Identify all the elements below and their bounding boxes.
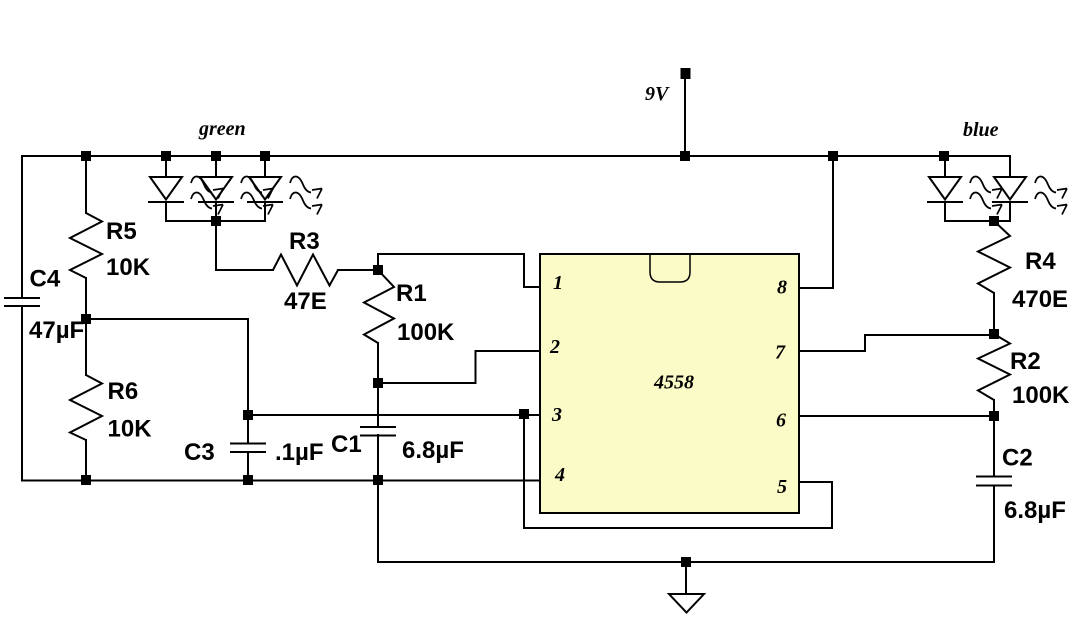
svg-text:R5: R5: [106, 218, 137, 245]
LED D5 emission arrows: [1035, 176, 1067, 214]
junction bottom rail / R6: [81, 475, 91, 485]
svg-text:5: 5: [777, 476, 787, 498]
svg-text:R3: R3: [289, 228, 320, 255]
svg-text:C3: C3: [184, 439, 215, 466]
svg-text:470E: 470E: [1012, 286, 1068, 313]
wire R5 bottom stub: [85, 278, 87, 319]
wire R1 bottom stub: [377, 343, 379, 383]
resistor R4: [978, 221, 1010, 293]
svg-text:R6: R6: [108, 378, 139, 405]
junction top rail / blue LED1: [939, 151, 949, 161]
junction R5/R6/C3 wire: [81, 314, 91, 324]
wire C2 top lead: [993, 416, 995, 476]
LED D4 emission arrows: [970, 176, 1002, 214]
node A: R3/R1/pin1: [373, 265, 383, 275]
svg-text:47µF: 47µF: [29, 317, 84, 344]
resistor R5: [70, 213, 102, 278]
wire node B to pin 2: [378, 351, 540, 383]
resistor R6: [70, 375, 102, 440]
wire node R5/R6 to C3 column: [86, 319, 248, 415]
wire R4 bottom stub: [993, 293, 995, 334]
LED D2 green: [198, 156, 234, 221]
svg-text:.1µF: .1µF: [275, 439, 324, 466]
wire R6 top stub: [85, 319, 87, 375]
junction green LED bus: [211, 216, 221, 226]
junction ground rail / ground: [681, 557, 691, 567]
9V supply terminal: [681, 68, 691, 79]
wire pin 7 step: [799, 335, 994, 351]
svg-text:6: 6: [776, 410, 786, 432]
wire green LED bus to R3: [216, 221, 273, 270]
capacitor C3: [230, 444, 266, 453]
wire left rail lower (C4 to bottom rail): [21, 307, 23, 481]
LED D1 green: [148, 156, 184, 221]
capacitor C4: [4, 298, 40, 306]
svg-text:6.8µF: 6.8µF: [402, 437, 464, 464]
resistor R1: [364, 270, 394, 343]
resistor R2: [978, 334, 1010, 400]
wire node A to pin 1: [378, 254, 540, 287]
junction C3 top / pin 3 line: [243, 410, 253, 420]
junction top rail / R5: [81, 151, 91, 161]
wire ground stem: [685, 562, 687, 594]
svg-text:R2: R2: [1010, 348, 1041, 375]
svg-text:10K: 10K: [108, 416, 153, 443]
wire blue LED cathode bus: [945, 220, 1010, 222]
wire pin 3 to pin 5 wrap: [524, 414, 832, 528]
wire pin 8 riser: [799, 156, 833, 288]
wire blue LED2 anode drop: [1009, 156, 1011, 177]
svg-text:9V: 9V: [645, 83, 670, 105]
wire R6 bottom stub: [85, 440, 87, 481]
svg-text:6.8µF: 6.8µF: [1004, 497, 1066, 524]
svg-text:47E: 47E: [284, 288, 327, 315]
svg-text:C1: C1: [331, 431, 362, 458]
LED D4 blue: [927, 156, 963, 221]
svg-text:10K: 10K: [106, 254, 151, 281]
wire C1 column to ground rail: [377, 481, 379, 563]
wire green LED cathode bus: [166, 220, 265, 222]
svg-text:R4: R4: [1025, 248, 1056, 275]
resistor R3: [273, 255, 338, 286]
wire bottom-left rail to pin 4: [22, 480, 540, 482]
wire R5 top stub: [85, 156, 87, 213]
svg-text:blue: blue: [963, 119, 999, 141]
svg-text:green: green: [198, 118, 246, 140]
svg-text:C2: C2: [1002, 445, 1033, 472]
junction top rail / pin 8 riser: [828, 151, 838, 161]
ground: [669, 594, 704, 613]
LED D5 blue: [992, 177, 1028, 221]
svg-text:3: 3: [551, 404, 562, 426]
junction bottom rail / C3: [243, 475, 253, 485]
wire C1 top lead: [377, 383, 379, 427]
wire pin 3 line: [248, 414, 540, 416]
LED D2 emission arrows: [241, 176, 273, 214]
wire left rail upper (to C4): [21, 156, 23, 298]
wire C1 bottom lead: [377, 435, 379, 481]
svg-text:7: 7: [775, 342, 786, 364]
node B: R1/C1/pin2: [373, 378, 383, 388]
op-amp U1 4558 body: [540, 254, 799, 513]
junction bottom rail / C1 column: [373, 475, 383, 485]
wire 9V feed: [684, 71, 686, 156]
wire ground rail: [378, 561, 994, 563]
wire R3 to node A: [338, 269, 378, 271]
junction top rail / green LED1: [161, 151, 171, 161]
wire top supply rail: [22, 155, 1010, 157]
wire C2 bottom lead: [993, 486, 995, 562]
junction blue LED bus / R4: [989, 216, 999, 226]
svg-text:4: 4: [554, 464, 565, 486]
wire R2 bottom stub: [993, 400, 995, 416]
LED D3 emission arrows: [290, 176, 322, 214]
svg-text:100K: 100K: [397, 319, 455, 346]
wire C3 column upper plate lead: [247, 415, 249, 443]
LED D1 emission arrows: [191, 176, 223, 214]
junction top rail / green LED2: [211, 151, 221, 161]
svg-text:C4: C4: [30, 266, 61, 293]
svg-text:2: 2: [549, 336, 560, 358]
wire pin 6 line: [799, 415, 994, 417]
junction top rail / 9V: [680, 151, 690, 161]
LED D3 green: [247, 156, 283, 221]
svg-text:4558: 4558: [653, 372, 694, 394]
capacitor C1: [360, 427, 396, 436]
svg-text:100K: 100K: [1012, 382, 1070, 409]
svg-text:1: 1: [553, 272, 563, 294]
junction R4/R2/pin 7: [989, 329, 999, 339]
svg-text:R1: R1: [396, 280, 427, 307]
wire C3 column lower plate lead: [247, 452, 249, 481]
svg-text:8: 8: [777, 277, 787, 299]
junction R2/C2/pin 6: [989, 411, 999, 421]
junction top rail / green LED3: [260, 151, 270, 161]
capacitor C2: [976, 477, 1012, 486]
junction pin 3 / pin 5 wrap: [519, 409, 529, 419]
